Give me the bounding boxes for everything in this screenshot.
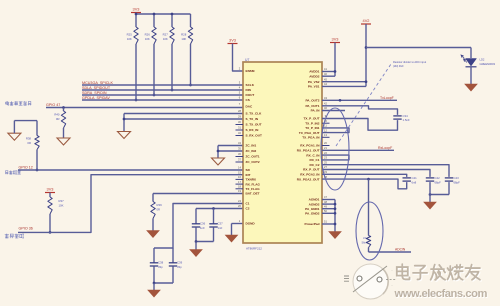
resistor R27: [171, 14, 173, 27]
ground (ZC pair): [212, 158, 225, 165]
svg-text:R27: R27: [163, 33, 169, 37]
svg-text:3V3: 3V3: [229, 38, 236, 43]
junction C2/C37: [212, 207, 215, 210]
svg-text:1nF: 1nF: [218, 226, 223, 230]
junction GPIO12/R38: [36, 169, 39, 172]
svg-text:ADCIN: ADCIN: [395, 248, 406, 252]
svg-text:TX_PGA_IN: TX_PGA_IN: [302, 136, 320, 140]
wire C2 pin branch: [196, 208, 243, 210]
svg-text:PA_VS2: PA_VS2: [308, 80, 320, 84]
capacitor C37: [213, 209, 215, 224]
wire AGND group to ground: [322, 199, 335, 201]
wire BAT_DET pin to R39: [153, 193, 243, 195]
svg-text:TX_P_IN1: TX_P_IN1: [305, 126, 320, 130]
ground (C38/C39): [153, 283, 155, 290]
svg-text:C42: C42: [435, 176, 441, 180]
annotation antenna output (chinese): [5, 171, 20, 175]
junction on 3V3 rail: [153, 13, 156, 16]
wire S_TX_CLK tie: [124, 113, 243, 115]
svg-text:R40: R40: [54, 113, 60, 117]
wire C38/C39 bottoms: [154, 282, 173, 284]
svg-text:4V2: 4V2: [363, 18, 370, 23]
svg-text:RX_PGA2_IN: RX_PGA2_IN: [300, 173, 320, 177]
svg-text:C36: C36: [200, 222, 206, 226]
annotation dashed leader line: [336, 64, 391, 146]
wire LED cathode to ground: [470, 67, 472, 84]
wire ground to R38: [13, 121, 15, 134]
svg-text:TX_P_OUT: TX_P_OUT: [304, 117, 320, 121]
ground (C42/C43): [429, 195, 431, 203]
svg-text:SD: SD: [246, 168, 251, 172]
junction (pull-up R26): [153, 94, 156, 97]
svg-text:C38: C38: [158, 261, 164, 265]
wire ZC_IN1 tie: [218, 145, 243, 147]
wire PowerPad: [322, 223, 335, 225]
svg-text:RX_C1: RX_C1: [310, 158, 320, 162]
watermark text dianzifashaoyou (vector CJK): [398, 265, 481, 281]
capacitor C43: [445, 177, 453, 179]
U7 left pin stubs, names and numbers: [236, 67, 263, 226]
wire net GPDLA_SPIDAV: [82, 99, 243, 101]
svg-text:www.elecfans.com: www.elecfans.com: [394, 288, 488, 300]
wire net MCU3GA_SPICLK: [82, 84, 243, 86]
wire PA_VS1/PA_VS2 riser: [322, 81, 366, 83]
junction ZC pair: [217, 150, 220, 153]
svg-text:0R: 0R: [56, 117, 60, 121]
ground (R38 top): [8, 133, 21, 140]
junction ADC sense riser: [367, 178, 370, 181]
svg-text:PowerPad: PowerPad: [305, 222, 320, 226]
watermark stamp circles and slash: [353, 266, 387, 292]
wire 3V3 to ENSM pin: [233, 44, 244, 72]
wire PA_OUT1 to C34 top: [322, 106, 398, 115]
svg-text:1nF: 1nF: [200, 226, 205, 230]
svg-text:RX_PGA1_IN: RX_PGA1_IN: [300, 144, 320, 148]
junction on 3V3 rail: [171, 13, 174, 16]
svg-text:33p: 33p: [177, 265, 182, 269]
wire DGND pin: [232, 223, 244, 225]
svg-text:68pF: 68pF: [435, 180, 442, 184]
wire net SDLA_SPIDOUT: [82, 89, 243, 91]
wire GPIO 47 to DAC pin: [46, 107, 243, 109]
annotation ellipse (RF pins highlight): [321, 108, 349, 190]
wire RX_C2 to C43: [322, 165, 449, 177]
junction GPIO36/R37: [49, 231, 52, 234]
resistor R40: [63, 108, 65, 112]
wire ZC_IN2 tie: [218, 150, 243, 152]
svg-text:ZC_IN1: ZC_IN1: [246, 144, 257, 148]
svg-text:C34: C34: [403, 114, 409, 118]
svg-text:10K: 10K: [145, 37, 150, 41]
wire C42 bottom: [429, 182, 431, 194]
svg-text:DGND: DGND: [246, 222, 256, 226]
wire riser to L5 sense inductor: [368, 179, 370, 235]
resistor R26: [153, 14, 155, 27]
svg-text:S_TX_OUT: S_TX_OUT: [246, 123, 262, 127]
svg-text:U7: U7: [245, 58, 249, 62]
resistor R38: [36, 121, 38, 136]
junction PA_GND2: [334, 212, 337, 215]
svg-text:3V3: 3V3: [133, 7, 140, 12]
svg-text:1.5nF: 1.5nF: [403, 118, 410, 122]
ground (R39): [147, 231, 159, 238]
svg-text:DIN: DIN: [246, 88, 252, 92]
junction AVDD: [334, 70, 337, 73]
junction S pair: [123, 118, 126, 121]
svg-text:AT86RF212: AT86RF212: [246, 247, 262, 251]
svg-text:AGND1: AGND1: [309, 198, 320, 202]
svg-text:C37: C37: [218, 222, 224, 226]
wire net SDRA_SPIDIN: [82, 94, 243, 96]
inductor L5: [366, 236, 370, 248]
wire C34 bottom to TX_P_OUT: [322, 119, 398, 131]
wire AVDD1/AVDD2 to 3V3: [322, 71, 335, 73]
svg-text:INT: INT: [246, 173, 251, 177]
ground (S pair): [118, 132, 131, 139]
capacitor C38: [153, 248, 155, 263]
junction PA_VS riser top branch: [365, 46, 368, 49]
svg-text:RX_P_OUT: RX_P_OUT: [303, 168, 319, 172]
svg-text:68pF: 68pF: [454, 180, 461, 184]
svg-text:PA_OUT2: PA_OUT2: [305, 99, 319, 103]
svg-text:33p: 33p: [158, 265, 163, 269]
svg-text:SDLA_SPIDOUT: SDLA_SPIDOUT: [82, 86, 111, 90]
wire RX_P_OUT to C42: [322, 170, 430, 177]
junction GPIO47/R40: [62, 106, 65, 109]
svg-text:PA_VS1: PA_VS1: [308, 85, 320, 89]
junction PowerPad: [334, 223, 337, 226]
wire S_TX_IN tie: [124, 118, 243, 120]
junction PA_VS2: [365, 80, 368, 83]
wire 3V3 rail: [135, 13, 137, 15]
svg-text:R38: R38: [26, 137, 32, 141]
svg-text:PA_GND2: PA_GND2: [305, 212, 320, 216]
ground (R40): [57, 138, 70, 145]
resistor R39: [152, 194, 154, 202]
svg-text:Resistor divider to ADC input: Resistor divider to ADC input: [393, 60, 426, 64]
annotation DAC mode select (chinese): [6, 101, 32, 105]
wire RX_PGA2_IN to C41 top: [322, 174, 407, 177]
wire net GPIO 36 to INT pin: [18, 175, 243, 233]
svg-text:BAT_DET: BAT_DET: [246, 192, 260, 196]
junction (pull-up R25): [135, 99, 138, 102]
svg-text:GPIO 12: GPIO 12: [19, 166, 33, 170]
svg-text:RX_PGA2_OUT: RX_PGA2_OUT: [297, 177, 320, 181]
capacitor C36: [195, 209, 197, 224]
annotation interrupt input (chinese): [5, 234, 24, 238]
svg-text:RxLoopF: RxLoopF: [378, 146, 392, 150]
svg-text:R39: R39: [157, 203, 163, 207]
svg-text:0R: 0R: [157, 207, 161, 211]
junction C42/C43 ground rail: [429, 193, 432, 196]
svg-text:SDRA_SPIDIN: SDRA_SPIDIN: [82, 91, 107, 95]
wire C36/C37 bottoms: [196, 241, 214, 243]
wire to LED: [366, 47, 471, 49]
svg-text:R26: R26: [145, 33, 151, 37]
wire L5 to ADCIN: [368, 248, 370, 253]
ground (DGND): [225, 235, 237, 242]
junction C38 ground: [153, 282, 156, 285]
junction (pull-up R28): [189, 84, 192, 87]
svg-text:S_RX_IN: S_RX_IN: [246, 128, 260, 132]
svg-text:C39: C39: [177, 261, 183, 265]
resistor R25: [135, 14, 137, 27]
svg-text:RX_C2: RX_C2: [310, 163, 320, 167]
wire RX_C_IN/RX_C1 u-link: [322, 155, 349, 160]
svg-text:TxLoopF: TxLoopF: [380, 96, 394, 100]
svg-text:ENSM: ENSM: [246, 69, 255, 73]
svg-text:10K: 10K: [181, 37, 186, 41]
wire net GPIO 12 to SD pin: [18, 169, 243, 171]
resistor R37: [49, 193, 51, 198]
svg-text:AVDD1: AVDD1: [309, 70, 320, 74]
svg-text:C1: C1: [246, 202, 250, 206]
capacitor C42: [426, 177, 434, 179]
junction on 3V3 rail: [135, 13, 138, 16]
ground (AGND/PowerPad): [329, 232, 341, 239]
svg-text:LD2: LD2: [480, 58, 485, 62]
ground (LED): [465, 84, 477, 91]
wire TX_P_IN1/TX_PGA_OUT u-link: [322, 128, 349, 133]
wire net RxLoopF: [322, 149, 394, 151]
svg-text:R25: R25: [127, 33, 133, 37]
junction AGND2: [334, 203, 337, 206]
svg-text:GPDLA_SPIDAV: GPDLA_SPIDAV: [82, 96, 110, 100]
svg-text:GPIO 36: GPIO 36: [19, 227, 33, 231]
wire PA_IN stub: [322, 110, 345, 112]
svg-text:AVDD2: AVDD2: [309, 74, 320, 78]
svg-text:(dbl) RxF: (dbl) RxF: [393, 64, 404, 68]
svg-text:DOUT: DOUT: [246, 93, 255, 97]
junction TxLoopF: [339, 99, 342, 102]
capacitor C34: [393, 115, 401, 117]
svg-text:TX_PGA_OUT: TX_PGA_OUT: [299, 131, 320, 135]
svg-text:CS: CS: [246, 98, 250, 102]
svg-text:S_RX_OUT: S_RX_OUT: [246, 134, 262, 138]
svg-text:10K: 10K: [163, 37, 168, 41]
svg-text:10K: 10K: [59, 203, 64, 207]
svg-text:6n8: 6n8: [412, 180, 417, 184]
svg-text:PA_OUT1: PA_OUT1: [305, 104, 319, 108]
svg-text:10K: 10K: [127, 37, 132, 41]
svg-text:0R: 0R: [27, 141, 31, 145]
resistor R28: [190, 14, 192, 27]
svg-text:R28: R28: [181, 33, 187, 37]
svg-text:C43: C43: [454, 176, 460, 180]
wire C1 pin branch: [154, 204, 243, 249]
svg-text:PA_IN: PA_IN: [311, 109, 321, 113]
wire C41 bottom loop to RX_PGA2_OUT: [322, 179, 407, 189]
svg-text:3V3: 3V3: [332, 37, 339, 42]
svg-text:S_TX_IN: S_TX_IN: [246, 117, 259, 121]
svg-text:GPIO 47: GPIO 47: [46, 103, 60, 107]
svg-text:RX_FLAG: RX_FLAG: [246, 182, 261, 186]
svg-text:RX_PGA1_OUT: RX_PGA1_OUT: [297, 149, 320, 153]
svg-text:ZC_IN2: ZC_IN2: [246, 149, 257, 153]
svg-text:TX_P_IN2: TX_P_IN2: [305, 121, 320, 125]
svg-text:ZC_OUT1: ZC_OUT1: [246, 155, 260, 159]
svg-text:GREEN0603: GREEN0603: [480, 62, 496, 66]
annotation ellipse (ADC sense highlight): [356, 202, 383, 260]
svg-text:C2: C2: [246, 207, 250, 211]
svg-text:AGND2: AGND2: [309, 202, 320, 206]
watermark stamp circle: [353, 264, 388, 299]
capacitor C39: [172, 248, 174, 263]
wire riser to ground (ZC pair): [217, 146, 219, 159]
op IC U7 body: [243, 62, 322, 243]
svg-text:C41: C41: [412, 176, 418, 180]
wire riser to ground (S pair): [123, 114, 125, 132]
svg-text:PA_GND1: PA_GND1: [305, 207, 320, 211]
svg-text:56n: 56n: [362, 240, 367, 244]
junction (pull-up R27): [171, 89, 174, 92]
capacitor C41: [403, 177, 411, 179]
svg-text:R37: R37: [59, 199, 65, 203]
svg-text:TXNRX: TXNRX: [246, 178, 257, 182]
wire net TxLoopF: [322, 99, 397, 101]
svg-text:SCLK: SCLK: [246, 83, 255, 87]
svg-text:MCU3GA_SPICLK: MCU3GA_SPICLK: [82, 81, 113, 85]
junction PA_GND1: [334, 207, 337, 210]
U7 right pin stubs, names and numbers: [297, 67, 330, 226]
junction C36 ground: [195, 240, 198, 243]
ground (C36/C37): [195, 242, 197, 250]
svg-text:ZC_OUT2: ZC_OUT2: [246, 160, 260, 164]
svg-text:DAC: DAC: [246, 105, 253, 109]
LED LD2: [466, 59, 477, 67]
wire C43 bottom: [448, 182, 450, 194]
svg-text:3V3: 3V3: [47, 187, 54, 192]
svg-text:RX_C_IN: RX_C_IN: [306, 153, 320, 157]
svg-text:TX_FLAG: TX_FLAG: [246, 187, 261, 191]
svg-text:S_TX_CLK: S_TX_CLK: [246, 112, 263, 116]
